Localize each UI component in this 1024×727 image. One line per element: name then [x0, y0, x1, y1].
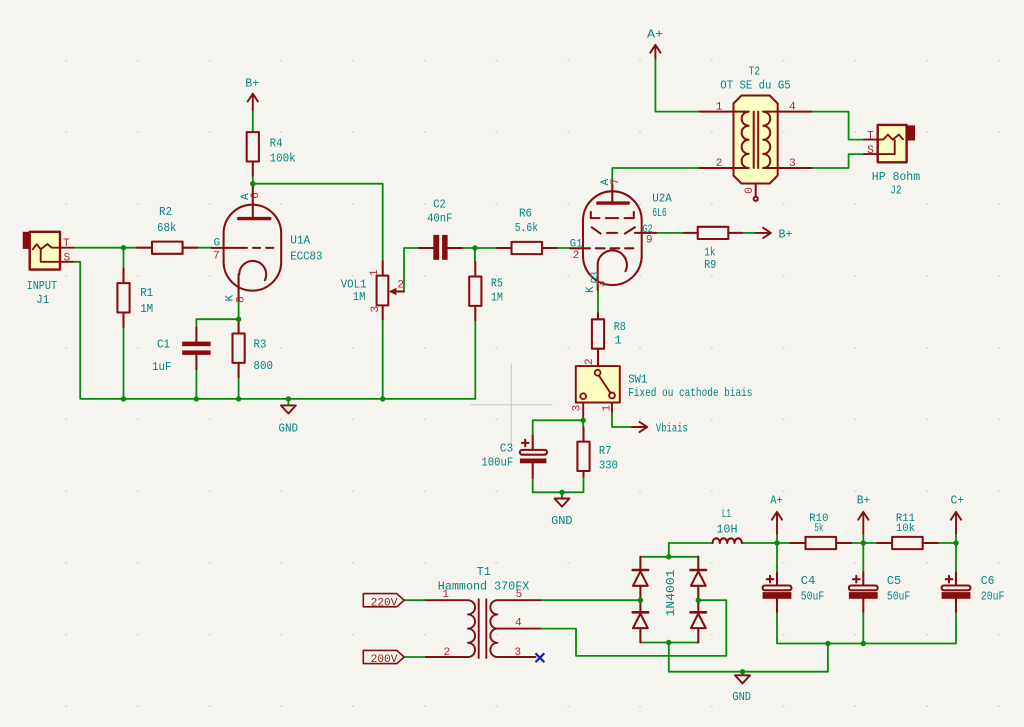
svg-text:4: 4: [789, 102, 796, 114]
svg-text:R9: R9: [704, 258, 716, 272]
svg-text:7: 7: [213, 250, 220, 262]
svg-text:GND: GND: [551, 514, 573, 528]
svg-text:A+: A+: [647, 27, 663, 41]
svg-text:T2: T2: [749, 65, 760, 79]
svg-text:2: 2: [444, 647, 451, 659]
svg-text:C1: C1: [157, 338, 170, 352]
svg-text:R4: R4: [270, 137, 283, 151]
svg-text:G: G: [214, 238, 221, 250]
svg-text:5k: 5k: [814, 523, 823, 535]
svg-text:GND: GND: [732, 690, 751, 704]
svg-text:1uF: 1uF: [152, 360, 172, 374]
svg-text:1M: 1M: [491, 291, 503, 305]
svg-text:HP 8ohm: HP 8ohm: [872, 170, 920, 184]
svg-text:1: 1: [601, 405, 613, 412]
svg-text:3: 3: [514, 647, 521, 659]
svg-text:330: 330: [599, 459, 618, 473]
svg-text:3: 3: [597, 281, 609, 288]
svg-text:R5: R5: [491, 277, 503, 291]
svg-text:5: 5: [516, 589, 523, 601]
svg-text:68k: 68k: [157, 221, 177, 235]
svg-text:OT SE du G5: OT SE du G5: [720, 78, 790, 92]
svg-text:R8: R8: [614, 320, 626, 334]
svg-text:B+: B+: [779, 227, 793, 241]
svg-text:R3: R3: [254, 338, 267, 352]
svg-text:J2: J2: [890, 184, 902, 198]
svg-text:10H: 10H: [716, 522, 737, 536]
svg-text:A+: A+: [770, 494, 782, 508]
svg-text:G1: G1: [570, 238, 583, 250]
svg-text:GND: GND: [279, 421, 299, 435]
svg-text:3: 3: [571, 405, 583, 412]
svg-text:100uF: 100uF: [481, 456, 513, 470]
svg-text:1N4001: 1N4001: [665, 569, 678, 616]
svg-text:L1: L1: [722, 507, 731, 521]
svg-text:ECC83: ECC83: [290, 250, 322, 264]
svg-text:2: 2: [397, 280, 404, 292]
svg-text:1M: 1M: [140, 302, 153, 316]
svg-text:C+: C+: [951, 494, 965, 508]
svg-text:C4: C4: [801, 574, 816, 588]
svg-text:1M: 1M: [353, 290, 366, 304]
svg-text:K: K: [224, 295, 236, 302]
svg-text:J1: J1: [36, 293, 49, 307]
svg-text:220V: 220V: [371, 597, 398, 609]
svg-text:100k: 100k: [270, 152, 296, 166]
svg-text:0: 0: [744, 187, 756, 194]
svg-text:200V: 200V: [371, 654, 398, 666]
svg-text:SW1: SW1: [628, 372, 647, 386]
svg-text:Fixed ou cathode biais: Fixed ou cathode biais: [628, 386, 752, 400]
svg-text:9: 9: [646, 235, 653, 247]
svg-text:U1A: U1A: [290, 233, 311, 247]
svg-text:T: T: [867, 131, 874, 143]
svg-text:INPUT: INPUT: [27, 279, 57, 293]
svg-text:7: 7: [610, 178, 622, 185]
svg-text:50uF: 50uF: [801, 590, 825, 604]
svg-text:20uF: 20uF: [981, 590, 1005, 604]
svg-text:S: S: [867, 145, 874, 157]
svg-text:U2A: U2A: [652, 192, 672, 206]
svg-text:6: 6: [250, 192, 262, 199]
svg-text:40nF: 40nF: [427, 211, 452, 225]
svg-text:Vbiais: Vbiais: [656, 422, 688, 436]
svg-text:C6: C6: [981, 574, 995, 588]
svg-text:4: 4: [515, 618, 522, 630]
svg-text:T1: T1: [477, 565, 491, 579]
svg-text:B+: B+: [857, 494, 871, 508]
svg-text:1: 1: [442, 589, 449, 601]
svg-text:C5: C5: [887, 574, 901, 588]
svg-text:2: 2: [716, 158, 723, 170]
svg-text:T: T: [63, 238, 70, 250]
svg-text:C2: C2: [433, 197, 446, 211]
svg-text:1: 1: [369, 269, 381, 276]
svg-text:10k: 10k: [896, 523, 915, 535]
svg-text:B+: B+: [245, 76, 259, 90]
svg-text:R2: R2: [159, 205, 172, 219]
svg-text:50uF: 50uF: [887, 590, 910, 604]
svg-text:800: 800: [254, 359, 274, 373]
svg-text:R1: R1: [140, 286, 153, 300]
svg-text:2: 2: [573, 250, 580, 262]
svg-text:2: 2: [584, 358, 596, 365]
svg-text:6L6: 6L6: [652, 206, 666, 220]
svg-text:S: S: [64, 252, 71, 264]
svg-text:R6: R6: [519, 207, 532, 221]
svg-text:1: 1: [614, 333, 621, 347]
svg-text:K: K: [585, 286, 597, 293]
svg-text:8: 8: [236, 296, 248, 303]
svg-text:5.6k: 5.6k: [515, 221, 538, 235]
svg-text:R7: R7: [599, 444, 612, 458]
svg-text:1: 1: [716, 102, 723, 114]
svg-text:C3: C3: [500, 441, 513, 455]
svg-text:3: 3: [789, 158, 796, 170]
svg-text:3: 3: [370, 306, 382, 313]
